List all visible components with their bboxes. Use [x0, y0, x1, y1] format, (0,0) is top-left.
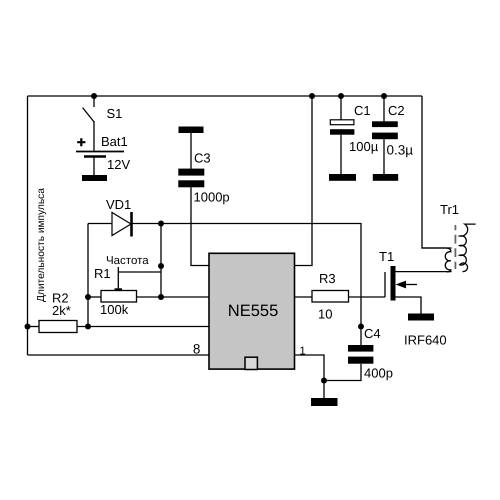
capacitor C2 plate 1 — [372, 121, 398, 127]
wire left frame — [27, 96, 29, 355]
resistor R3 — [312, 291, 349, 303]
node C1 top — [338, 93, 344, 99]
wiper contact R1 — [115, 288, 123, 290]
wire C4 top — [360, 327, 362, 346]
svg-text:8: 8 — [193, 342, 201, 357]
node pin1 C4 junction — [321, 378, 327, 384]
wire top rail — [28, 95, 423, 97]
wire R1 right to U1 — [137, 296, 210, 298]
transistor T1 gate — [384, 272, 386, 297]
node x161 mid — [158, 263, 164, 269]
transformer Tr1 primary — [445, 248, 451, 272]
node R1 right x161 — [158, 294, 164, 300]
node battery top — [91, 93, 97, 99]
svg-text:400p: 400p — [364, 366, 393, 381]
capacitor C3 plate 2 — [178, 180, 204, 187]
ground battery — [82, 175, 107, 181]
node R2 left — [25, 324, 31, 330]
svg-text:S1: S1 — [107, 106, 123, 121]
svg-text:C1: C1 — [354, 103, 371, 118]
switch S1 — [83, 108, 94, 122]
svg-text:C3: C3 — [194, 151, 211, 166]
wire R2 left — [28, 326, 40, 328]
notch U1 — [245, 357, 257, 369]
ground C2 — [373, 174, 398, 181]
node R2 right x88 — [85, 324, 91, 330]
wire C1 bottom — [340, 135, 342, 174]
battery Bat1 plus plate — [76, 151, 124, 153]
wire R1 left — [88, 296, 101, 298]
svg-text:2k*: 2k* — [52, 303, 71, 318]
wire diode row left — [88, 223, 112, 225]
svg-text:Длительность импульса: Длительность импульса — [36, 188, 47, 302]
svg-text:Bat1: Bat1 — [101, 134, 128, 149]
ground C1 — [329, 174, 356, 181]
wire C3 top — [190, 133, 192, 169]
svg-text:R1: R1 — [94, 266, 111, 281]
wire T1 source — [396, 297, 422, 314]
wire supply to U1 right pin — [295, 96, 313, 266]
resistor R1 — [101, 291, 137, 303]
node C4 top — [358, 324, 364, 330]
ground C3 top — [179, 127, 204, 134]
wire R3 left — [295, 296, 313, 298]
svg-text:1000p: 1000p — [194, 190, 230, 205]
svg-text:100µ: 100µ — [349, 139, 379, 154]
wire left branch vertical — [87, 224, 89, 327]
svg-text:100k: 100k — [100, 302, 129, 317]
svg-text:R3: R3 — [319, 271, 336, 286]
wire C2 bottom — [383, 139, 385, 174]
wire battery to ground — [93, 157, 95, 175]
wire right frame to transformer — [422, 96, 452, 248]
transformer Tr1 secondary — [460, 224, 476, 271]
wire diode row right — [132, 224, 362, 327]
svg-text:Частота: Частота — [106, 255, 149, 267]
capacitor C1 plate — [330, 129, 354, 135]
svg-text:C4: C4 — [364, 326, 381, 341]
battery Bat1 minus plate — [84, 155, 106, 157]
wire R1 wiper — [117, 267, 119, 290]
ground pin 1 — [311, 398, 338, 406]
wire pin 8 row — [28, 354, 210, 356]
capacitor C3 plate 1 — [178, 169, 204, 176]
wire C3 to U1 left pin — [191, 187, 209, 265]
svg-text:IRF640: IRF640 — [404, 333, 447, 348]
capacitor C2 plate 2 — [372, 133, 398, 140]
node diode row x161 — [158, 221, 164, 227]
wire pin 1 — [295, 355, 325, 398]
svg-text:T1: T1 — [379, 249, 394, 264]
wire C2 top — [383, 96, 385, 121]
wire C4 bottom — [324, 364, 361, 381]
wire R3 to gate — [349, 296, 386, 298]
svg-text:NE555: NE555 — [228, 302, 278, 320]
wire switch stub — [93, 96, 95, 107]
diode VD1 — [112, 213, 131, 236]
wire Tr1 primary stub — [422, 247, 447, 249]
capacitor C4 plate 1 — [348, 345, 373, 352]
resistor R2 — [39, 321, 77, 333]
capacitor C1 plus plate — [330, 120, 354, 125]
wire T1 drain — [396, 271, 452, 273]
node R1 left — [85, 294, 91, 300]
label battery plus — [77, 138, 85, 146]
wire R1 vertical x161 — [160, 224, 162, 298]
ground T1 source — [408, 314, 434, 321]
transistor T1 channel bar — [391, 266, 396, 301]
svg-text:C2: C2 — [388, 103, 405, 118]
svg-text:Tr1: Tr1 — [440, 202, 459, 217]
node supply to U1 — [309, 93, 315, 99]
transistor T1 substrate arrow — [404, 284, 417, 286]
svg-text:12V: 12V — [107, 157, 130, 172]
wire R2 right to U1 — [77, 326, 209, 328]
wire C1 top — [340, 96, 342, 120]
svg-text:VD1: VD1 — [106, 197, 131, 212]
capacitor C4 plate 2 — [348, 357, 373, 364]
wire switch to battery — [93, 121, 95, 151]
svg-text:0.3µ: 0.3µ — [387, 143, 414, 158]
svg-text:10: 10 — [318, 307, 332, 322]
core Tr1 — [454, 225, 456, 269]
node C2 top — [381, 93, 387, 99]
op-amp U1 NE555 box — [209, 253, 295, 369]
svg-text:1: 1 — [299, 345, 305, 357]
